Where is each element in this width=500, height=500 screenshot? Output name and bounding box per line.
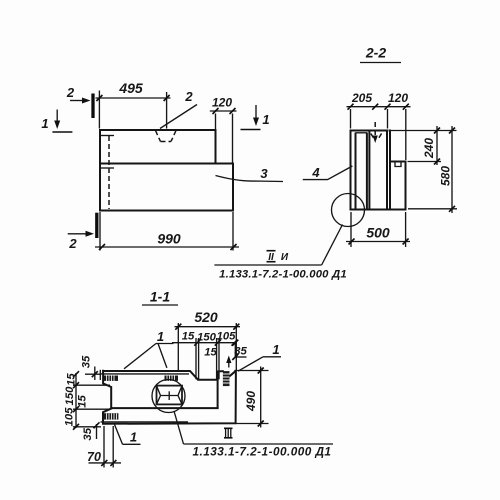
svg-text:1: 1 [272,342,279,357]
svg-text:150: 150 [197,332,217,344]
leader label 4 [303,165,353,180]
svg-text:500: 500 [366,225,390,241]
leader from anchor circle to callout [174,411,184,444]
dimension row 15 150 105 [172,331,238,380]
weld pad top-left [104,376,118,382]
svg-text:И: И [281,252,289,263]
dimension 580 (far right of 2-2) [408,126,457,213]
label 1 (right of 1-1) with leader [238,342,281,371]
svg-text:1: 1 [262,112,269,127]
dimension 70 (bottom left) [87,426,121,468]
svg-text:240: 240 [422,138,436,159]
svg-text:105: 105 [64,407,76,427]
svg-text:35: 35 [234,346,247,358]
detail circle (2-2 corner) [332,194,365,227]
dimension 520 (above 1-1) [175,309,241,371]
svg-text:2: 2 [184,89,193,104]
leader to pocket, label 2 [160,105,197,129]
section 2-2: pocket centerline and arrow [371,122,382,143]
section 2-2 body outline [351,131,406,210]
dimension 500 (below 2-2) [346,212,410,247]
section mark 2 (top) [66,85,93,118]
svg-text:150: 150 [64,386,76,406]
leader label 3 [216,176,284,182]
section 1-1 body outline [100,370,236,424]
svg-text:70: 70 [87,450,101,464]
svg-text:1.133.1-7.2-1-00.000 Д1: 1.133.1-7.2-1-00.000 Д1 [219,269,347,281]
main view: top-left rabbet step [100,135,114,137]
svg-text:15: 15 [77,395,89,408]
detail circle (anchor) [152,380,185,413]
dimension 990 [95,212,239,251]
svg-text:15: 15 [204,347,217,359]
callout shelf II И [214,251,321,265]
weld pad bottom-left [104,413,118,419]
section mark 1 (left) [41,110,72,133]
section mark 1 (right) [241,105,270,130]
dimension 495 [96,80,171,129]
svg-text:520: 520 [194,309,218,325]
svg-text:490: 490 [244,391,258,412]
svg-text:1.133.1-7.2-1-00.000 Д1: 1.133.1-7.2-1-00.000 Д1 [193,445,332,459]
svg-text:15: 15 [66,373,78,386]
weld pad right (vertical) [223,371,230,386]
main view: upper block outline [100,130,233,211]
label 1 (bottom of 1-1) with leader [115,425,141,445]
svg-text:4: 4 [311,165,320,180]
svg-text:205: 205 [351,91,372,105]
svg-text:1: 1 [157,329,164,344]
svg-text:15: 15 [182,331,195,343]
svg-text:2: 2 [68,236,77,251]
dimension 205 / 120 (above 2-2) [347,91,411,160]
svg-text:105: 105 [217,331,237,343]
main view: hidden vertical joint (dashed) [108,136,110,209]
svg-text:35: 35 [81,355,93,368]
svg-text:120: 120 [212,96,232,110]
svg-text:2: 2 [66,85,75,100]
main view: mid-left rabbet step [100,167,114,169]
dimension 35 (right small) [226,340,247,368]
main view: lifting pocket notch (dashed trapezoid) [156,131,177,142]
dimension 240 (right of 2-2) [390,126,457,165]
label 1 (top of 1-1) with two leaders [124,329,174,369]
svg-text:495: 495 [118,80,143,96]
svg-text:1: 1 [41,116,48,131]
left dimension stack of 1-1 [64,355,111,441]
callout shelf III [184,428,334,444]
svg-text:120: 120 [388,91,408,105]
dimension 120 (top right of main view) [210,96,237,163]
lifting anchor detail [157,386,183,405]
svg-text:580: 580 [439,166,453,186]
section mark 2 (bottom) [68,213,97,251]
svg-text:1: 1 [130,430,137,445]
svg-text:3: 3 [260,166,268,181]
svg-text:990: 990 [157,231,181,247]
svg-text:1-1: 1-1 [150,289,170,305]
svg-text:35: 35 [82,427,94,440]
leader from circle to callout [322,225,343,266]
weld pad top-middle [165,376,179,382]
dimension 490 (right of 1-1) [234,367,268,428]
svg-text:2-2: 2-2 [365,45,386,61]
